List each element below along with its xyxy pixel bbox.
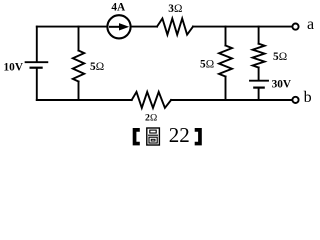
wire bottom-right horizontal xyxy=(171,99,292,101)
svg-text:2Ω: 2Ω xyxy=(145,112,158,123)
caption left bracket xyxy=(133,128,140,145)
svg-text:b: b xyxy=(304,89,312,106)
terminal b circle xyxy=(292,97,298,103)
voltage source 30V battery plates xyxy=(250,81,268,88)
svg-text:a: a xyxy=(307,16,314,33)
svg-text:30V: 30V xyxy=(272,78,292,90)
wire branch1 lower xyxy=(78,82,80,101)
wire branch3 upper xyxy=(258,27,260,44)
resistor R2 5ohm zigzag xyxy=(219,46,232,77)
wire top-left horizontal xyxy=(37,26,107,28)
caption right bracket xyxy=(195,128,202,145)
resistor 3-ohm zigzag xyxy=(157,19,193,35)
svg-text:4A: 4A xyxy=(111,1,126,13)
current source arrow shaft xyxy=(110,26,121,28)
resistor R3 5ohm zigzag xyxy=(253,44,265,68)
caption character tu (figure) xyxy=(147,128,160,145)
svg-text:5Ω: 5Ω xyxy=(90,61,104,73)
svg-text:5Ω: 5Ω xyxy=(200,58,214,70)
wire bottom-left horizontal xyxy=(37,99,132,101)
wire left rail lower xyxy=(36,69,38,100)
wire branch2 upper xyxy=(225,27,227,46)
svg-text:10V: 10V xyxy=(4,62,24,74)
svg-text:22: 22 xyxy=(169,123,190,147)
wire top-middle (current source to 3-ohm) xyxy=(132,26,157,28)
voltage source 10V battery plates xyxy=(26,62,48,67)
wire left rail upper xyxy=(36,27,38,62)
svg-text:5Ω: 5Ω xyxy=(273,51,287,63)
terminal a circle xyxy=(292,24,298,30)
wire branch2 lower xyxy=(225,77,227,101)
current source arrowhead xyxy=(119,23,129,30)
wire branch3 lower xyxy=(258,89,260,101)
resistor 2-ohm zigzag xyxy=(132,92,171,108)
wire branch3 middle xyxy=(258,68,260,80)
resistor R1 5ohm zigzag xyxy=(73,51,84,82)
wire top-right (3-ohm to terminal a) xyxy=(193,26,292,28)
svg-text:3Ω: 3Ω xyxy=(168,3,182,15)
wire branch1 upper xyxy=(78,27,80,51)
current source I1 4A circle xyxy=(107,15,130,38)
